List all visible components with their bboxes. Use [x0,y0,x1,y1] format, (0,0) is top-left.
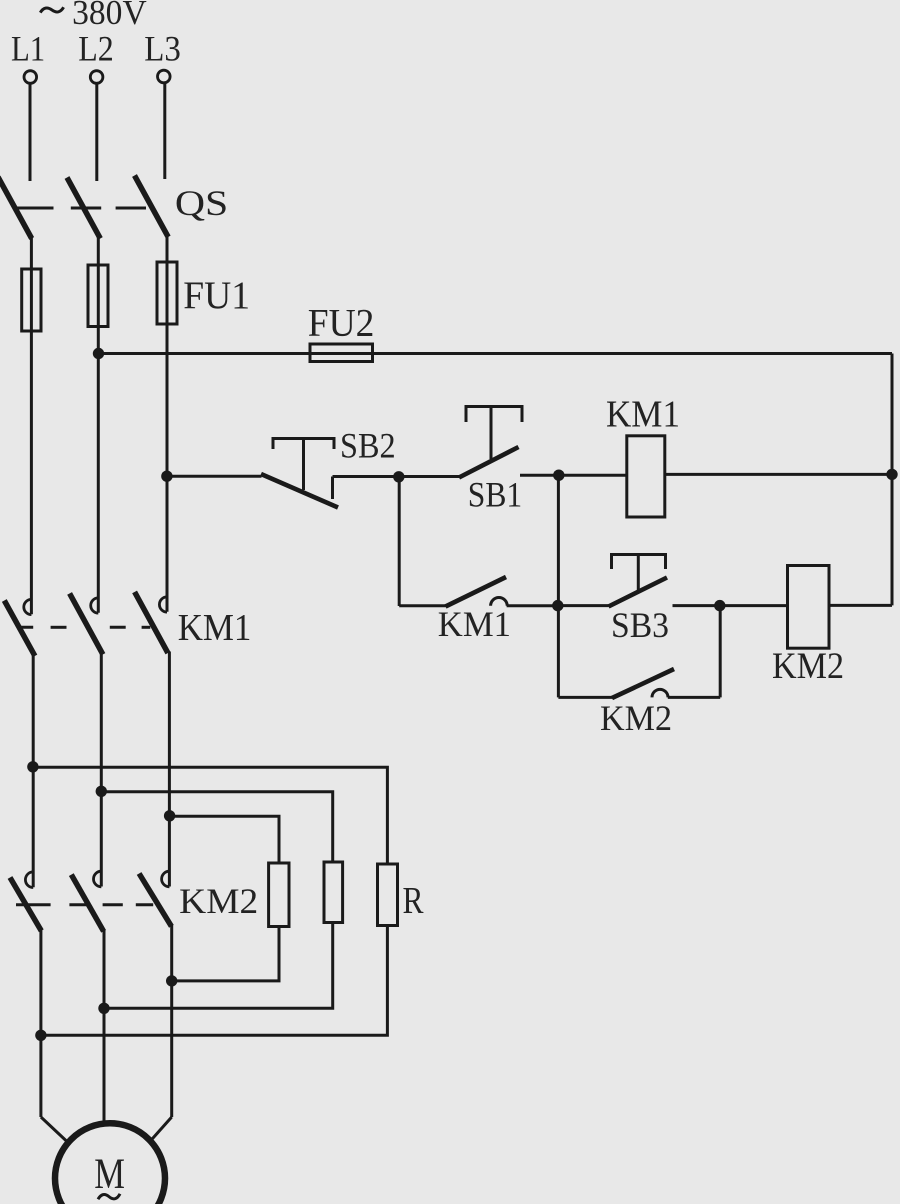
wire L3 node to SB2 [167,475,262,478]
wire L1 KM1 main to KM2 main [32,655,35,888]
svg-text:KM2: KM2 [179,881,258,921]
contact KM2 main pole 3 blade [139,874,171,927]
pushbutton SB2 actuator stem [302,439,305,491]
node on L2 feeding control rail [93,348,104,359]
svg-text:SB2: SB2 [340,426,396,466]
node L1 resistor branch [27,761,38,772]
node L2 resistor branch [96,786,107,797]
pushbutton SB1 actuator bracket [466,407,522,423]
svg-text:L2: L2 [78,29,114,69]
svg-text:KM2: KM2 [772,646,844,687]
pushbutton SB3 actuator bracket [612,555,666,570]
node B [553,470,564,481]
wire node B down through row2 to row3 [557,475,560,697]
wire L2 KM2 main to motor [103,930,106,1124]
wire L3 KM1 main to KM2 main [168,652,171,887]
wire node C to SB3 [558,604,609,607]
contact KM1 main pole 2 blade [70,593,103,654]
pushbutton SB3 blade [609,578,668,607]
fuse FU1 pole 3 [157,262,177,324]
wire right rail [891,354,894,606]
contact KM2 aux fixed contact arc [652,689,668,697]
wire L2 terminal to QS [95,84,98,182]
contact KM1 main pole 3 fixed arc [159,597,167,612]
pushbutton SB2 fixed contact stub [331,477,334,500]
contact KM2 main pole 1 blade [10,878,41,931]
svg-text:FU2: FU2 [308,302,375,345]
svg-text:SB3: SB3 [611,605,669,645]
wire row3 left [558,696,612,699]
svg-text:KM1: KM1 [178,607,252,649]
coil KM1 [627,436,665,517]
contact KM1 aux fixed contact arc [491,598,508,606]
wire resistor 2 bottom to L2 [104,923,333,1009]
wire L3 QS to KM1 main [166,236,169,612]
node on L3 feeding SB2 [161,471,172,482]
KM2 main linkage dashed line [16,903,153,906]
pushbutton SB1 actuator stem [490,407,493,460]
terminal L2 [90,71,103,84]
svg-text:KM1: KM1 [438,604,511,644]
contact KM1 main pole 1 fixed arc [24,599,32,614]
node D [714,600,725,611]
switch QS pole 3 blade [135,176,169,238]
node resistor 2 L2 [98,1003,109,1014]
svg-text:R: R [403,880,425,922]
motor M circle [55,1123,165,1204]
label ~380V tilde [40,7,63,12]
contact KM2 main pole 2 blade [71,875,103,932]
wire L3 branch to resistor 1 [170,816,279,863]
svg-text:KM2: KM2 [600,698,672,738]
resistor R element 2 [324,862,343,923]
terminal L1 [24,71,37,84]
wire L1 motor lead diagonal [41,1117,68,1142]
svg-text:L3: L3 [144,29,181,69]
svg-text:380V: 380V [72,0,147,32]
wire L2 QS to KM1 main [97,237,100,613]
node resistor 3 L1 [35,1030,46,1041]
motor tilde [98,1194,120,1200]
svg-text:M: M [94,1151,125,1198]
wire node A to SB1 [399,475,460,478]
svg-text:SB1: SB1 [468,475,522,515]
wire SB3 to node D [673,604,720,607]
wire KM2 coil to right rail [829,604,892,607]
wire L1 KM2 main to motor [39,930,42,1118]
contact KM2 main pole 1 fixed arc [25,872,33,888]
resistor R element 1 [269,863,289,927]
pushbutton SB2 actuator bracket [273,439,334,450]
wire SB1 to node B [520,474,627,477]
fuse FU2 [310,344,373,362]
wire row2 left [399,604,446,607]
node right rail KM1 row [886,469,897,480]
fuse FU1 pole 2 [88,265,108,327]
wire L3 motor lead diagonal [151,1117,172,1141]
wire node D down to KM2 aux [719,606,722,698]
contact KM1 main pole 3 blade [135,592,168,653]
wire L2 branch to resistor 2 [101,792,332,862]
wire L2 KM1 main to KM2 main [100,653,103,887]
pushbutton SB2 blade [261,474,338,508]
svg-text:QS: QS [175,183,228,223]
wire node A down to KM1 aux [398,477,401,607]
node L3 resistor branch [164,810,175,821]
wire L1 QS to KM1 main [30,237,33,614]
wire L1 terminal to QS [29,84,32,182]
wire KM1 aux to node C [507,604,558,607]
wire L1 branch to resistor 3 [33,767,388,864]
KM1 main linkage dashed line [17,626,150,629]
contact KM1 aux blade [446,577,507,607]
wire resistor 1 bottom to L3 [172,927,279,981]
wire L3 terminal to QS [163,83,166,179]
pushbutton SB3 actuator stem [637,555,640,593]
contact KM2 main pole 2 fixed arc [94,871,102,887]
contact KM2 aux blade [612,669,674,698]
wire SB2 to node A [333,475,399,478]
contact KM1 main pole 1 blade [4,601,35,656]
contact KM1 main pole 2 fixed arc [91,598,99,613]
terminal L3 [158,70,171,83]
wire resistor 3 bottom to L1 [41,926,388,1036]
QS linkage dashed line [15,207,147,210]
wire L3 KM2 main to motor [170,925,173,1117]
svg-text:L1: L1 [11,29,45,69]
switch QS pole 1 blade [0,177,32,239]
node C [552,600,563,611]
node A [393,471,404,482]
node resistor 1 L3 [166,975,177,986]
pushbutton SB1 blade [459,447,519,478]
wire KM1 coil to right rail [665,473,892,476]
wire control rail top [99,352,893,355]
fuse FU1 pole 1 [22,269,41,331]
switch QS pole 2 blade [67,178,100,239]
wire KM2 aux right [668,696,720,699]
contact KM2 main pole 3 fixed arc [162,871,170,887]
wire node D to KM2 coil [720,604,788,607]
svg-text:FU1: FU1 [183,274,250,317]
coil KM2 [788,566,830,649]
svg-text:KM1: KM1 [606,394,680,436]
resistor R element 3 [378,864,398,926]
